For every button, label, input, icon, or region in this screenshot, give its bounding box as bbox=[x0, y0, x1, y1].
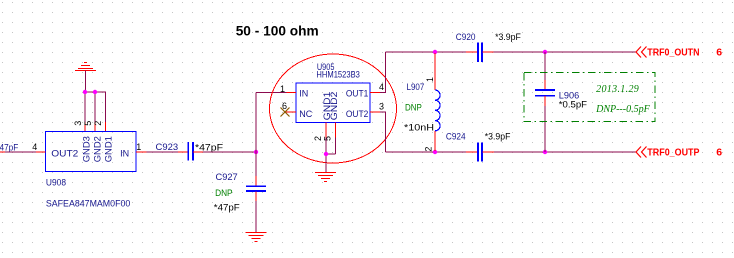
svg-text:OUT1: OUT1 bbox=[346, 89, 368, 99]
svg-text:2: 2 bbox=[424, 147, 434, 152]
wire bus across U908 gnd pins bbox=[85, 92, 106, 122]
value *3.9pF C920 bbox=[495, 32, 521, 42]
svg-text:6: 6 bbox=[716, 46, 722, 58]
svg-text:DNP---0.5pF: DNP---0.5pF bbox=[595, 104, 650, 115]
svg-text:5: 5 bbox=[322, 136, 332, 141]
svg-text:GND2: GND2 bbox=[329, 92, 339, 121]
pin 2 stub U905 bbox=[313, 123, 326, 142]
svg-text:2: 2 bbox=[93, 121, 103, 126]
svg-text:C927: C927 bbox=[216, 172, 238, 182]
node junction B bbox=[93, 90, 97, 94]
svg-text:4: 4 bbox=[379, 82, 384, 92]
wire C924 to TRF0_OUTP bbox=[494, 151, 636, 153]
svg-text:*0.5pF: *0.5pF bbox=[559, 99, 588, 109]
refdes U908 bbox=[46, 178, 66, 188]
svg-text:DNP: DNP bbox=[405, 102, 422, 112]
wire U908 to C923 bbox=[147, 151, 179, 153]
svg-text:OUT2: OUT2 bbox=[51, 149, 78, 159]
capacitor C920 bbox=[456, 32, 494, 62]
svg-text:3: 3 bbox=[73, 121, 83, 126]
svg-text:3: 3 bbox=[379, 101, 384, 111]
svg-text:IN: IN bbox=[299, 89, 308, 99]
value SAFEA847MAM0F00 bbox=[46, 198, 130, 208]
refdes U905 bbox=[317, 62, 335, 72]
svg-text:DNP: DNP bbox=[215, 188, 233, 198]
svg-text:IN: IN bbox=[120, 149, 129, 159]
wire gnd down to node A bbox=[84, 71, 86, 92]
svg-text:1: 1 bbox=[280, 84, 285, 94]
svg-text:L907: L907 bbox=[407, 82, 425, 92]
wire C920 to TRF0_OUTN bbox=[494, 51, 637, 53]
node junction E (L907 top) bbox=[433, 50, 437, 54]
value *3.9pF C924 bbox=[485, 131, 511, 141]
title 50 - 100 ohm bbox=[236, 23, 319, 39]
pin 5 stub U905 bbox=[322, 123, 335, 142]
svg-text:5: 5 bbox=[83, 121, 93, 126]
svg-text:C920: C920 bbox=[456, 32, 476, 42]
svg-text:*47pF: *47pF bbox=[214, 202, 240, 212]
pin 3 stub U908 bbox=[73, 121, 85, 132]
wire U905 pin4 to top rail bbox=[380, 52, 466, 93]
wire U905 gnd pins to ground bbox=[326, 138, 335, 172]
svg-text:4: 4 bbox=[32, 142, 37, 152]
pin 5 stub U908 bbox=[83, 121, 95, 132]
svg-text:OUT2: OUT2 bbox=[346, 109, 368, 119]
pin 2 stub U908 bbox=[93, 121, 105, 132]
wire left edge red bbox=[0, 151, 5, 153]
pin 1 stub U908 bbox=[136, 142, 147, 152]
svg-text:NC: NC bbox=[299, 109, 312, 119]
capacitor C923 bbox=[156, 142, 204, 161]
ground below U905 bbox=[315, 173, 336, 182]
value *47pF C927 bbox=[214, 202, 240, 212]
svg-text:1: 1 bbox=[136, 142, 141, 152]
IC U908 body bbox=[46, 132, 137, 172]
value HHM1523B3 bbox=[316, 69, 360, 79]
off-page connector TRF0_OUTN bbox=[636, 46, 722, 58]
svg-text:*47pF: *47pF bbox=[195, 142, 224, 152]
note DNP---0.5pF bbox=[595, 104, 650, 115]
svg-text:47pF: 47pF bbox=[0, 142, 19, 152]
svg-text:SAFEA847MAM0F00: SAFEA847MAM0F00 bbox=[46, 198, 130, 208]
node junction A bbox=[83, 90, 87, 94]
node junction H (L906 bottom) bbox=[543, 150, 547, 154]
pin 4 stub U905 bbox=[370, 82, 384, 93]
capacitor C927 bbox=[216, 172, 267, 201]
svg-text:*3.9pF: *3.9pF bbox=[495, 32, 521, 42]
svg-text:GND2: GND2 bbox=[93, 136, 103, 162]
ground GND top-left (inverted earth) bbox=[75, 63, 96, 71]
DNP label C927 bbox=[215, 188, 233, 198]
value *47pF C923 bbox=[195, 142, 224, 152]
svg-text:HHM1523B3: HHM1523B3 bbox=[316, 69, 360, 79]
net label 47pF bbox=[0, 142, 19, 152]
wire node C down to C927 bbox=[255, 152, 257, 176]
node junction C bbox=[254, 150, 258, 154]
highlight ellipse around U905 bbox=[270, 54, 397, 163]
DNP dashed box bbox=[524, 73, 655, 122]
svg-text:50 - 100 ohm: 50 - 100 ohm bbox=[236, 23, 319, 39]
node junction D bbox=[324, 152, 328, 156]
capacitor L906 (shunt) bbox=[535, 52, 579, 152]
pin 6 stub U905 (NC) bbox=[282, 101, 296, 112]
wire to pin4 bbox=[5, 151, 36, 153]
wire U905 pin3 to bottom rail bbox=[380, 112, 466, 152]
value *0.5pF L906 bbox=[559, 99, 588, 109]
svg-text:*3.9pF: *3.9pF bbox=[485, 131, 511, 141]
node junction G (L906 top) bbox=[543, 50, 547, 54]
wire C923 to node C bbox=[203, 151, 256, 153]
svg-text:U908: U908 bbox=[46, 178, 66, 188]
svg-text:2: 2 bbox=[313, 136, 323, 141]
pin 1 stub U905 bbox=[280, 84, 296, 94]
svg-text:C923: C923 bbox=[156, 142, 179, 152]
pin 4 stub U908 bbox=[32, 142, 45, 152]
svg-text:6: 6 bbox=[716, 146, 722, 158]
svg-text:1: 1 bbox=[425, 77, 435, 82]
note 2013.1.29 bbox=[596, 84, 639, 95]
svg-text:*10nH: *10nH bbox=[404, 122, 434, 132]
svg-text:2013.1.29: 2013.1.29 bbox=[596, 84, 639, 95]
svg-text:GND1: GND1 bbox=[103, 136, 113, 162]
node junction F (L907 bottom) bbox=[433, 150, 437, 154]
IC U905 body bbox=[296, 83, 370, 123]
svg-text:GND3: GND3 bbox=[81, 136, 91, 162]
inductor L907 bbox=[407, 53, 441, 152]
value *10nH L907 bbox=[404, 122, 434, 132]
wire C927 to ground bbox=[255, 201, 257, 232]
svg-text:TRF0_OUTN: TRF0_OUTN bbox=[647, 46, 699, 58]
wire node C up to U905 pin1 bbox=[256, 93, 287, 153]
no-connect X bbox=[281, 108, 290, 117]
ground below C927 bbox=[246, 233, 267, 242]
DNP label L907 bbox=[405, 102, 422, 112]
svg-text:TRF0_OUTP: TRF0_OUTP bbox=[647, 146, 699, 158]
off-page connector TRF0_OUTP bbox=[636, 146, 722, 158]
capacitor C924 bbox=[446, 131, 494, 161]
svg-text:C924: C924 bbox=[446, 131, 466, 141]
pin 3 stub U905 bbox=[370, 101, 384, 112]
